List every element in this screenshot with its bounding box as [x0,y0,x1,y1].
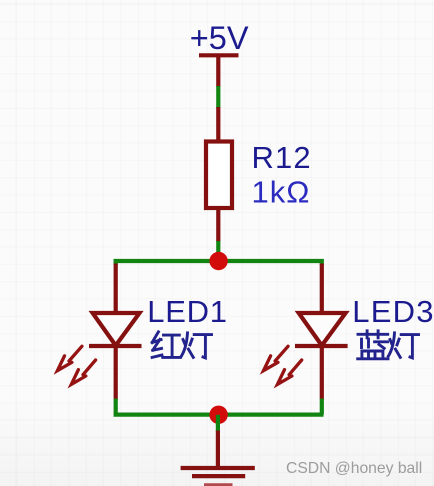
label 红灯 (red lamp, drawn glyphs) [152,332,180,358]
svg-text:R12: R12 [252,140,312,175]
LED3 cathode pin [320,346,324,400]
power symbol stem [216,55,220,87]
LED LED1 triangle [93,313,140,346]
LED1 cathode pin [114,346,118,400]
ground bar 3 (clipped at image edge) [204,483,233,486]
resistor R12 body [206,142,232,209]
svg-text:1kΩ: 1kΩ [252,175,311,210]
wire left branch bottom (green) [114,399,118,415]
LED LED3 emission arrow 1 [264,346,289,370]
wire R12 to node A (green) [216,241,220,253]
svg-text:LED1: LED1 [147,294,227,329]
wire right branch top elbow [320,259,324,265]
ground bar 2 [192,474,245,478]
wire node B to ground (green) [216,415,220,432]
resistor R12 bottom pin [216,208,220,242]
svg-text:CSDN @honey ball: CSDN @honey ball [286,460,422,477]
svg-text:+5V: +5V [190,20,249,56]
power symbol +5V bar [199,53,239,57]
LED1 anode pin [114,264,118,314]
wire left branch top elbow [114,259,118,265]
ground stem [216,431,220,469]
wire top horizontal bus [114,259,324,263]
LED LED1 emission arrow 1 [57,346,82,370]
LED LED3 triangle [299,313,346,346]
ground bar 1 [181,466,255,470]
junction node B [209,406,227,424]
LED3 anode pin [320,264,324,314]
label 红灯 glyph 灯 (drawn) [181,333,211,358]
wire bottom horizontal bus [114,413,324,417]
LED LED3 cathode bar [295,344,348,348]
LED LED1 emission arrow 2 [71,360,95,384]
junction node A [209,252,227,270]
label 蓝灯 glyph 灯 (drawn) [388,333,418,358]
LED LED1 cathode bar [89,344,142,348]
LED LED3 emission arrow 2 [277,360,301,384]
wire right branch bottom (green) [320,399,324,415]
label 蓝灯 (blue lamp, drawn glyphs) [358,331,388,359]
svg-text:LED3: LED3 [352,294,434,329]
wire power to R12 (green) [216,86,220,108]
resistor R12 top pin [216,107,220,141]
